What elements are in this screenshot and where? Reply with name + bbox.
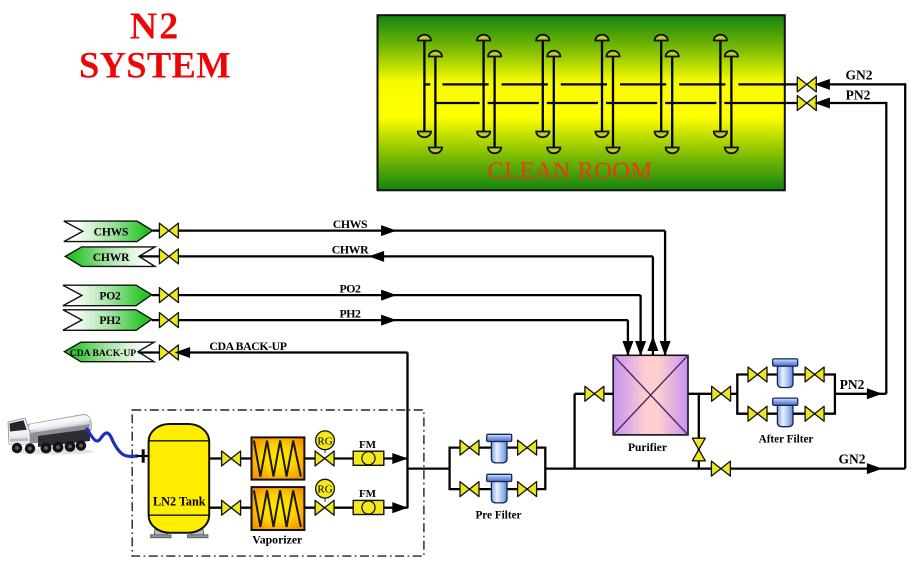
hose truck to tank: [87, 429, 137, 456]
svg-text:PN2: PN2: [846, 88, 871, 103]
fitting plus: [137, 455, 149, 457]
wire row2 tank to vaporizer: [209, 507, 251, 509]
svg-text:CHWS: CHWS: [333, 217, 368, 231]
truck LN2 tanker: [8, 414, 94, 454]
wire PN2 top: [815, 102, 887, 104]
valve pre filter bottom-left: [460, 482, 479, 497]
wire PN2 out: [835, 393, 886, 395]
arrow PN2 out: [867, 389, 881, 399]
svg-text:LN2 Tank: LN2 Tank: [153, 495, 206, 509]
wire PN2 riser: [885, 102, 887, 394]
wire pre filter top branch: [449, 446, 547, 448]
wire purifier outlet: [688, 393, 737, 395]
regulator RG row1: [324, 449, 326, 453]
valve CDA: [159, 345, 178, 360]
arrow CDA: [176, 348, 190, 358]
node pre filter right junction: [544, 448, 546, 490]
meter FM row1: [353, 451, 384, 465]
wire GN2 top: [815, 83, 905, 85]
wire after filter bottom branch: [736, 413, 836, 415]
svg-text:Pre Filter: Pre Filter: [475, 510, 521, 522]
wire pre filter bottom branch: [449, 488, 547, 490]
wire main header to pre filter: [408, 467, 450, 469]
wire CHWR drop from purifier: [652, 256, 654, 355]
svg-text:RG: RG: [317, 484, 332, 496]
valve PH2: [159, 313, 178, 328]
clean room drop caps: [418, 35, 738, 154]
wire PH2 run: [152, 319, 160, 321]
valve pre filter top-right: [518, 440, 537, 455]
valve after filter bottom-left: [748, 406, 767, 421]
wire CHWS run: [153, 229, 160, 231]
title N2 SYSTEM: [79, 6, 231, 86]
svg-text:Purifier: Purifier: [628, 442, 667, 454]
svg-text:PH2: PH2: [99, 314, 121, 327]
wire CHWS drop to purifier: [664, 231, 666, 356]
wire row2 FM to header: [384, 507, 408, 509]
node pre filter left junction: [448, 448, 450, 490]
arrow GN2 top: [816, 80, 830, 90]
wire PO2 run: [152, 294, 160, 296]
valve CHWS: [159, 223, 178, 238]
banner CHWS: [64, 221, 153, 242]
banner PH2: [63, 310, 152, 331]
svg-text:CHWR: CHWR: [332, 243, 369, 257]
svg-text:CDA BACK-UP: CDA BACK-UP: [70, 348, 136, 359]
banner CHWR: [65, 247, 155, 267]
valve purifier outlet: [712, 386, 731, 401]
arrow CHWS: [382, 226, 396, 236]
svg-text:PO2: PO2: [339, 282, 361, 296]
regulator RG row2: [324, 498, 326, 503]
filter pre bottom: [487, 474, 512, 503]
svg-text:FM: FM: [359, 488, 377, 500]
node after filter left junction: [736, 375, 738, 414]
banner PO2: [63, 285, 152, 306]
svg-text:CDA BACK-UP: CDA BACK-UP: [209, 339, 286, 353]
wire row1 vaporizer to FM: [304, 457, 353, 459]
wire purifier feed riser: [573, 394, 575, 469]
valve purifier inlet: [585, 386, 604, 401]
valve PN2 top: [797, 96, 816, 111]
valve GN2 top: [797, 77, 816, 92]
vaporizer top: [252, 437, 305, 479]
banner CDA BACK-UP: [64, 342, 154, 362]
valve CHWR: [159, 249, 178, 264]
purifier box: [613, 355, 688, 435]
boundary dash-dot box: [132, 410, 424, 556]
vaporizer bottom: [252, 487, 305, 530]
svg-text:CHWS: CHWS: [94, 225, 129, 238]
svg-text:RG: RG: [317, 435, 332, 447]
valve RG row2: [315, 500, 334, 515]
tank LN2: [149, 424, 210, 533]
wire GN2 main run: [545, 467, 905, 469]
clean room piping: PN2 header (lower): [435, 102, 797, 104]
arrow PH2 into purifier: [623, 342, 633, 355]
valve after filter top-right: [805, 367, 824, 382]
wire CHWR run: [139, 255, 159, 257]
arrow GN2 main: [867, 464, 881, 474]
valve pre filter top-left: [460, 440, 479, 455]
arrow PN2 top: [816, 98, 830, 108]
arrow PH2: [382, 315, 396, 325]
node after filter right junction: [834, 375, 836, 414]
wire row1 FM to header: [384, 457, 408, 459]
svg-text:CLEAN ROOM: CLEAN ROOM: [487, 158, 652, 185]
svg-text:PN2: PN2: [840, 377, 865, 392]
wire CDA run: [138, 351, 159, 353]
filter after top: [773, 359, 798, 388]
LN2 tank legs: [154, 527, 168, 536]
valve GN2 main: [711, 461, 730, 476]
svg-text:After Filter: After Filter: [759, 434, 814, 446]
valve RG row1: [315, 451, 334, 466]
arrow CHWS into purifier: [660, 342, 670, 355]
arrow CHWR out of purifier: [648, 338, 658, 351]
filter after bottom: [773, 398, 798, 427]
svg-text:SYSTEM: SYSTEM: [79, 45, 231, 86]
svg-text:GN2: GN2: [846, 68, 873, 83]
valve tank row2: [222, 500, 241, 515]
clean room box: [378, 15, 785, 190]
wire GN2 riser: [904, 83, 906, 468]
svg-text:GN2: GN2: [839, 452, 866, 467]
arrow CHWR: [370, 252, 384, 262]
wire purifier bypass drop: [698, 394, 700, 469]
valve pre filter bottom-right: [518, 482, 537, 497]
wire after filter top branch: [736, 373, 836, 375]
valve after filter top-left: [748, 367, 767, 382]
svg-text:FM: FM: [359, 439, 377, 451]
wire PH2 drop to purifier: [627, 320, 629, 355]
svg-text:PO2: PO2: [99, 289, 121, 302]
svg-text:N2: N2: [130, 6, 180, 48]
arrow row2: [393, 503, 407, 513]
valve tank row1: [222, 451, 241, 466]
arrow PO2: [382, 290, 396, 300]
clean room piping: GN2 header (upper): [424, 83, 797, 85]
wire PO2 drop to purifier: [639, 295, 641, 355]
valve PO2: [159, 288, 178, 303]
svg-text:CHWR: CHWR: [93, 251, 130, 264]
meter FM row2: [353, 500, 384, 514]
valve bypass vertical: [692, 438, 705, 461]
svg-text:PH2: PH2: [339, 307, 361, 321]
valve after filter bottom-right: [805, 406, 824, 421]
filter pre top: [487, 434, 512, 463]
arrow row1: [393, 454, 407, 464]
wire row2 vaporizer to FM: [304, 507, 353, 509]
clean room tool drops: [424, 41, 731, 148]
svg-text:Vaporizer: Vaporizer: [252, 533, 302, 547]
arrow PO2 into purifier: [636, 342, 646, 355]
wire CDA drop: [406, 353, 408, 509]
wire row1 tank to vaporizer: [209, 457, 251, 459]
